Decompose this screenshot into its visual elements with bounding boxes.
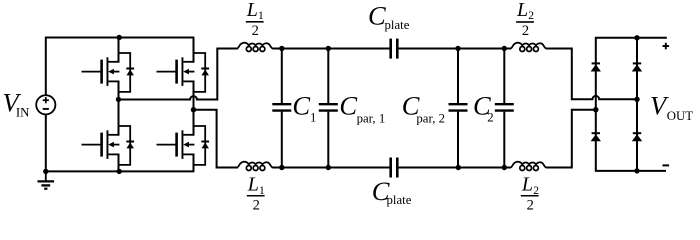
wire - V_IN negative lead from source down to bottom rail — [45, 114, 47, 171]
wire - bottom rail from C_plate to L2/2 bottom — [399, 167, 511, 169]
svg-text:L: L — [246, 0, 258, 21]
node - C1 bottom junction — [279, 165, 284, 170]
wire - Q3 drain lead — [193, 38, 195, 63]
label L1/2 (top) — [246, 0, 264, 39]
capacitor C_par,1 — [319, 49, 338, 168]
transistor Q3 (top-right NMOS with body diode) — [157, 53, 210, 92]
wire - bottom rail from L1/2 to C_plate bottom — [273, 167, 390, 169]
inductor L1/2 (bottom) — [236, 162, 273, 171]
svg-text:par, 1: par, 1 — [357, 111, 386, 125]
inductor L1/2 (top) — [236, 43, 273, 52]
label L2/2 (bottom) — [521, 174, 539, 214]
node - C_par,1 bottom junction — [326, 165, 331, 170]
terminal - (output negative) — [663, 164, 670, 166]
capacitor C2 — [495, 49, 514, 168]
svg-text:2: 2 — [487, 110, 493, 124]
label C_par,1 — [339, 91, 385, 126]
svg-text:2: 2 — [253, 198, 260, 214]
svg-text:1: 1 — [310, 110, 316, 124]
node - bottom rail junction at Q2 source — [117, 169, 122, 174]
svg-text:2: 2 — [252, 23, 259, 39]
label V_OUT — [650, 91, 693, 123]
wire - Q3 source lead down across hop to right midpoint — [193, 81, 195, 110]
label L1/2 (bottom) — [247, 174, 265, 214]
diode D1 (left column, upper) — [591, 62, 601, 71]
node - top rail junction at D3 cathode — [634, 35, 639, 40]
node - rectifier left column mid junction — [593, 107, 598, 112]
capacitor C_par,2 — [449, 49, 468, 168]
svg-text:IN: IN — [16, 106, 30, 120]
wire - rectifier bottom rail — [595, 170, 666, 172]
diode D4 (right column, lower) — [632, 132, 642, 141]
node - bottom rail junction at D4 anode — [634, 168, 639, 173]
wire - left midpoint to top feed, hops over Q3/Q4 bus — [119, 49, 218, 100]
wire - bottom rail from L2/2 to right feed corner, up to rectifier input — [546, 110, 596, 168]
wire - bottom rail: feed to inductor L1/2 bottom — [216, 167, 238, 169]
node - C2 bottom junction — [502, 165, 507, 170]
node - C_par,1 top junction — [326, 46, 331, 51]
svg-text:2: 2 — [527, 198, 534, 214]
node - right half-bridge midpoint junction — [191, 107, 196, 112]
node - bottom rail junction at ground tap — [43, 169, 48, 174]
label C2 — [473, 91, 494, 125]
svg-text:2: 2 — [528, 10, 534, 22]
label C_par,2 — [402, 91, 445, 126]
wire - top rail: feed to inductor L1/2 — [216, 48, 238, 50]
node - C_par,2 top junction — [455, 46, 460, 51]
wire - Q4 source lead to bottom rail — [193, 154, 195, 172]
svg-text:plate: plate — [387, 193, 412, 207]
diode D3 (right column, upper) — [632, 62, 642, 71]
wire - top rail from L2/2 to right feed corner, down to rectifier input — [546, 49, 572, 100]
node - C1 top junction — [279, 46, 284, 51]
svg-text:C: C — [339, 91, 357, 121]
svg-text:L: L — [247, 174, 259, 196]
transistor Q1 (top-left NMOS with body diode) — [82, 53, 135, 92]
dc source V_IN — [36, 95, 55, 114]
label C1 — [292, 91, 316, 125]
svg-text:1: 1 — [258, 10, 264, 22]
terminal + (output positive) — [663, 43, 670, 50]
wire - rectifier input (top) with hop over left column — [571, 96, 637, 99]
wire - Q1 source lead to left midpoint — [118, 81, 120, 100]
diode D2 (left column, lower) — [591, 132, 601, 141]
wire - right midpoint to bottom feed — [194, 110, 220, 168]
ground — [38, 171, 55, 188]
svg-text:L: L — [516, 0, 528, 21]
label C_plate (bottom) — [372, 176, 412, 207]
node - left half-bridge midpoint junction — [116, 97, 121, 102]
wire - top rail from L1/2 to C_plate — [273, 48, 390, 50]
svg-text:par, 2: par, 2 — [416, 111, 445, 125]
svg-text:OUT: OUT — [667, 109, 693, 123]
inductor L2/2 (top) — [510, 43, 547, 52]
node - C_par,2 bottom junction — [456, 165, 461, 170]
node - rectifier right column mid junction — [634, 97, 639, 102]
label C_plate (top) — [368, 0, 410, 32]
capacitor C1 — [272, 49, 291, 168]
node - C2 top junction — [502, 46, 507, 51]
label L2/2 (top) — [516, 0, 534, 39]
wire - Q2 drain lead from left midpoint — [118, 100, 120, 136]
wire - top rail from C_plate to L2/2 — [399, 48, 511, 50]
capacitor C_plate (bottom) — [391, 158, 398, 178]
transistor Q4 (bottom-right NMOS with body diode) — [157, 126, 210, 165]
svg-text:C: C — [368, 0, 386, 30]
wire - rectifier right column — [636, 38, 638, 171]
wire - rectifier left column — [595, 38, 597, 171]
capacitor C_plate (top) — [391, 39, 398, 59]
wire - Q1 drain lead — [118, 38, 120, 63]
wire - rectifier top rail — [595, 37, 667, 39]
wire - Q4 drain lead from right midpoint — [193, 110, 195, 136]
node - top rail junction at Q1 drain — [117, 35, 122, 40]
svg-text:C: C — [292, 91, 310, 121]
wire - input bridge top rail — [45, 37, 194, 39]
inductor L2/2 (bottom) — [510, 162, 547, 171]
wire - Q2 source lead to bottom rail — [118, 154, 120, 172]
svg-text:plate: plate — [385, 18, 410, 32]
wire - input bridge bottom rail (ground rail) — [45, 170, 194, 172]
wire - V_IN positive lead from source up to top rail — [45, 38, 47, 96]
transistor Q2 (bottom-left NMOS with body diode) — [82, 126, 135, 165]
label V_IN — [3, 87, 30, 119]
svg-text:L: L — [521, 174, 533, 196]
svg-text:2: 2 — [522, 23, 529, 39]
